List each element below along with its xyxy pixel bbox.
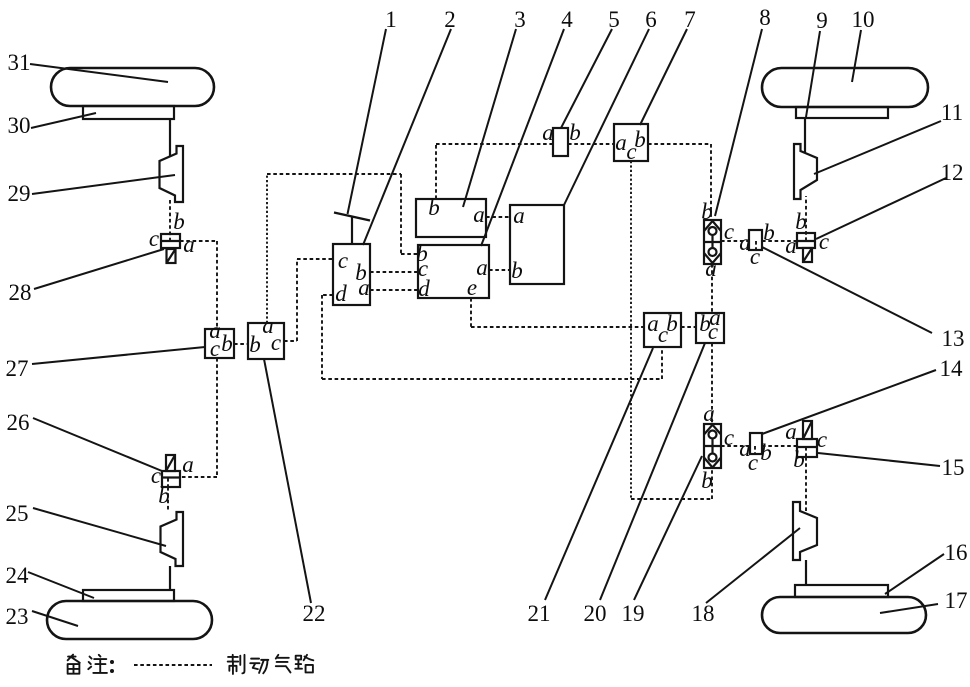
svg-text:b: b	[701, 468, 713, 493]
legend sample dashed line	[134, 664, 212, 666]
leader 30	[31, 113, 96, 128]
wire x297 riser	[296, 259, 298, 341]
leader 27	[32, 347, 205, 364]
svg-text:18: 18	[692, 601, 715, 626]
wire into brake valve c	[297, 258, 333, 260]
svg-text:8: 8	[759, 5, 771, 30]
wire top header left segment	[436, 143, 553, 145]
valve 19 upper seat chevron	[704, 425, 721, 435]
brake pedal plate (item 1)	[334, 213, 370, 221]
wire brake valve a to box4 d	[370, 289, 418, 291]
valve 19 midline	[704, 445, 721, 447]
wire block13 b to valve12 a	[762, 240, 797, 242]
svg-text:9: 9	[816, 8, 828, 33]
wire box27 b to box22 b	[234, 343, 248, 345]
valve 8 lower stem	[711, 242, 713, 248]
leader 18	[706, 528, 800, 603]
tire 10 (front-right)	[762, 68, 928, 107]
svg-text:24: 24	[6, 563, 30, 588]
svg-text:a: a	[542, 120, 554, 145]
svg-text:22: 22	[303, 601, 326, 626]
svg-text:c: c	[748, 450, 758, 475]
wire top elbow to x401	[267, 173, 401, 175]
wire valve12 b to chamber11	[805, 196, 807, 241]
svg-text:a: a	[705, 256, 717, 281]
brake chamber 11	[794, 144, 817, 199]
svg-text:14: 14	[940, 356, 964, 381]
svg-text:c: c	[149, 226, 159, 251]
valve box 7	[614, 124, 648, 161]
leader 13	[762, 247, 932, 333]
svg-text:b: b	[249, 332, 261, 357]
valve 26 midline	[162, 476, 180, 478]
reservoir box 3	[416, 199, 486, 237]
wire riser to box21 c	[661, 347, 663, 379]
svg-text:21: 21	[528, 601, 551, 626]
leader 14	[762, 370, 936, 434]
wire block13 c stub	[755, 241, 757, 249]
wire box27 c down	[216, 358, 218, 477]
wire box7 c long drop	[630, 161, 632, 499]
wire bottom elbow to x712	[631, 498, 712, 500]
wire e-run to box21 a	[471, 326, 644, 328]
wire stub inside valve26	[167, 478, 169, 487]
leader 2	[363, 29, 451, 245]
leader 23	[32, 611, 78, 626]
svg-text:25: 25	[6, 501, 29, 526]
svg-text:d: d	[335, 281, 347, 306]
foot brake valve U1 (items 1/2)	[333, 244, 370, 305]
tire 31 (front-left)	[51, 68, 214, 106]
wire valve19 c to block14 a	[721, 445, 750, 447]
wire x401 drop	[400, 174, 402, 254]
wire box21 b to box20 b	[681, 326, 696, 328]
leader 1	[348, 29, 387, 214]
leader 7	[640, 29, 687, 125]
svg-text:3: 3	[514, 7, 526, 32]
leader 10	[852, 30, 861, 82]
wire block14 b to valve15 a	[762, 445, 797, 447]
leader 26	[33, 418, 162, 471]
quick-release valve 12 body	[797, 233, 815, 248]
leader 5	[561, 29, 612, 128]
svg-text:b: b	[793, 447, 805, 472]
wire box22 a riser	[266, 174, 268, 323]
quick-release valve 26 body	[162, 471, 180, 487]
svg-text:6: 6	[645, 7, 657, 32]
leader 8	[715, 29, 762, 216]
wire valve26 b to chamber25	[167, 487, 169, 512]
sensor block 13	[749, 230, 762, 250]
svg-text:31: 31	[8, 50, 31, 75]
svg-text:20: 20	[584, 601, 607, 626]
valve 12 exhaust port	[803, 248, 812, 262]
svg-text:b: b	[173, 209, 185, 234]
svg-text:1: 1	[385, 7, 397, 32]
wire node x217 down to box27 a	[216, 241, 218, 329]
svg-text:28: 28	[9, 280, 32, 305]
box 6	[510, 205, 564, 284]
axle line front-right	[804, 118, 806, 153]
junction box 27	[205, 329, 234, 358]
leader 19	[634, 456, 702, 600]
svg-text:d: d	[418, 276, 430, 301]
svg-text:11: 11	[941, 100, 963, 125]
leader 4	[481, 29, 564, 246]
axle line rear-left	[169, 566, 171, 590]
valve 15 midline	[797, 446, 817, 448]
valve 26 exhaust slash	[166, 455, 175, 471]
svg-text:a: a	[615, 130, 627, 155]
tire 17 (rear-right)	[762, 597, 926, 633]
relay box 21	[644, 313, 681, 347]
quick-release valve 28 body	[161, 234, 180, 248]
valve 8 upper seat chevron	[704, 221, 721, 231]
wire brake valve d stub	[322, 294, 333, 296]
svg-text:c: c	[817, 427, 827, 452]
valve 8 upper stem	[711, 235, 713, 242]
leader 21	[545, 348, 653, 600]
svg-text:c: c	[626, 139, 636, 164]
pedal stem	[351, 217, 353, 244]
wire top header middle segment	[568, 143, 614, 145]
junction box 22	[248, 323, 284, 359]
svg-text:19: 19	[622, 601, 645, 626]
legend text 制动气路	[228, 655, 245, 674]
svg-text:c: c	[338, 248, 348, 273]
svg-text:10: 10	[852, 7, 875, 32]
wire valve8 a to box20 top	[711, 264, 713, 313]
svg-text:2: 2	[444, 7, 456, 32]
leader 28	[34, 249, 164, 289]
wire x322 drop	[321, 295, 323, 379]
svg-text:12: 12	[941, 160, 964, 185]
wire top header right segment	[648, 143, 711, 145]
svg-text:b: b	[760, 440, 772, 465]
leader 29	[32, 175, 175, 194]
svg-text:13: 13	[942, 326, 965, 351]
brake chamber 18	[793, 502, 817, 560]
valve 15 exhaust slash	[803, 421, 812, 439]
wire to valve26 a	[180, 476, 217, 478]
valve 8 lower seat chevron	[704, 253, 721, 263]
wire stub inside valve15	[805, 447, 807, 457]
valve 15 exhaust port	[803, 421, 812, 439]
tire 23 (rear-left)	[47, 601, 212, 639]
inline component 5	[553, 128, 568, 156]
svg-text:4: 4	[561, 7, 573, 32]
wire valve28 a to node x217	[180, 240, 217, 242]
svg-text:a: a	[703, 401, 715, 426]
wire box20 c to valve19 a	[711, 343, 713, 424]
leader 31	[30, 64, 168, 82]
wire long bottom run to x662	[322, 378, 662, 380]
leader 22	[264, 359, 311, 603]
leader 15	[818, 453, 940, 466]
valve 19 upper ball	[709, 431, 717, 439]
wire brake valve b to box4 c	[370, 271, 418, 273]
valve 12 exhaust slash	[803, 248, 812, 262]
svg-text:15: 15	[942, 455, 965, 480]
valve 19 lower ball	[709, 454, 717, 462]
rim 24	[83, 590, 174, 601]
svg-text:b: b	[428, 195, 440, 220]
brake chamber 25	[161, 512, 184, 566]
leader 24	[28, 572, 94, 598]
valve 19 upper stem	[711, 439, 713, 447]
double check valve 19 body	[704, 424, 721, 468]
leader 9	[806, 31, 820, 117]
svg-text:17: 17	[945, 588, 968, 613]
svg-text:b: b	[221, 331, 233, 356]
valve 8 midline	[704, 241, 721, 243]
svg-text:b: b	[511, 258, 523, 283]
valve 28 exhaust slash	[167, 249, 176, 263]
valve 19 lower seat chevron	[704, 458, 721, 468]
leader 12	[816, 178, 946, 239]
wire block14 c stub	[754, 446, 756, 453]
svg-text:a: a	[476, 255, 488, 280]
leader 11	[814, 121, 941, 174]
double check valve 8 body	[704, 220, 721, 264]
svg-text:16: 16	[945, 540, 968, 565]
svg-text:a: a	[513, 203, 525, 228]
svg-text:a: a	[473, 202, 485, 227]
wire box3 a to box6 a	[486, 216, 510, 218]
wire into box4 b	[401, 253, 418, 255]
leader 16	[885, 554, 944, 594]
svg-text:7: 7	[684, 7, 696, 32]
valve 8 upper ball	[709, 227, 717, 235]
rim 16	[795, 585, 888, 597]
svg-text:30: 30	[8, 113, 31, 138]
leader 20	[600, 343, 705, 600]
quick-release valve 15 body	[797, 439, 817, 457]
svg-text:a: a	[183, 232, 195, 257]
valve 8 lower ball	[709, 248, 717, 256]
svg-text:26: 26	[7, 410, 30, 435]
svg-text:c: c	[658, 322, 668, 347]
legend colon	[110, 660, 114, 664]
sensor block 14	[750, 433, 762, 454]
wire box3 b riser	[435, 144, 437, 199]
svg-text:5: 5	[608, 7, 620, 32]
valve 26 exhaust port	[166, 455, 175, 471]
svg-text:c: c	[750, 244, 760, 269]
svg-text:27: 27	[6, 356, 29, 381]
wire x711 drop to valve8 b	[710, 144, 712, 220]
valve 28 exhaust port	[167, 249, 176, 263]
svg-text:c: c	[708, 319, 718, 344]
svg-text:a: a	[785, 233, 797, 258]
svg-text:a: a	[358, 275, 370, 300]
brake chamber 29	[160, 146, 184, 202]
svg-text:b: b	[569, 120, 581, 145]
relay box 20	[696, 313, 724, 343]
wire riser to valve19 b	[711, 468, 713, 499]
svg-text:29: 29	[8, 181, 31, 206]
axle line front-left	[169, 119, 171, 157]
valve 28 midline	[161, 240, 180, 242]
valve 19 lower stem	[711, 446, 713, 454]
leader 25	[33, 508, 166, 546]
wire box4 a to box6 b	[489, 269, 510, 271]
axle line rear-right	[805, 560, 807, 586]
wire box22 c stub	[284, 340, 297, 342]
legend text 备注:	[68, 655, 80, 674]
wire box4 e drop	[470, 298, 472, 327]
rim 9	[796, 107, 888, 118]
rim 30	[83, 106, 174, 119]
svg-text:c: c	[210, 336, 220, 361]
wire valve15 b to chamber18	[805, 457, 807, 512]
wire valve8 c to block13 a	[721, 240, 749, 242]
wire chamber29 b to valve28 top	[169, 200, 171, 241]
svg-text:e: e	[467, 275, 477, 300]
svg-text:c: c	[271, 330, 281, 355]
svg-text:23: 23	[6, 604, 29, 629]
leader 17	[880, 604, 938, 613]
leader 3	[463, 29, 516, 207]
svg-text:a: a	[182, 452, 194, 477]
valve 12 midline	[797, 240, 815, 242]
svg-text:b: b	[795, 209, 807, 234]
leader 6	[564, 29, 649, 205]
control unit box 4	[418, 245, 489, 298]
